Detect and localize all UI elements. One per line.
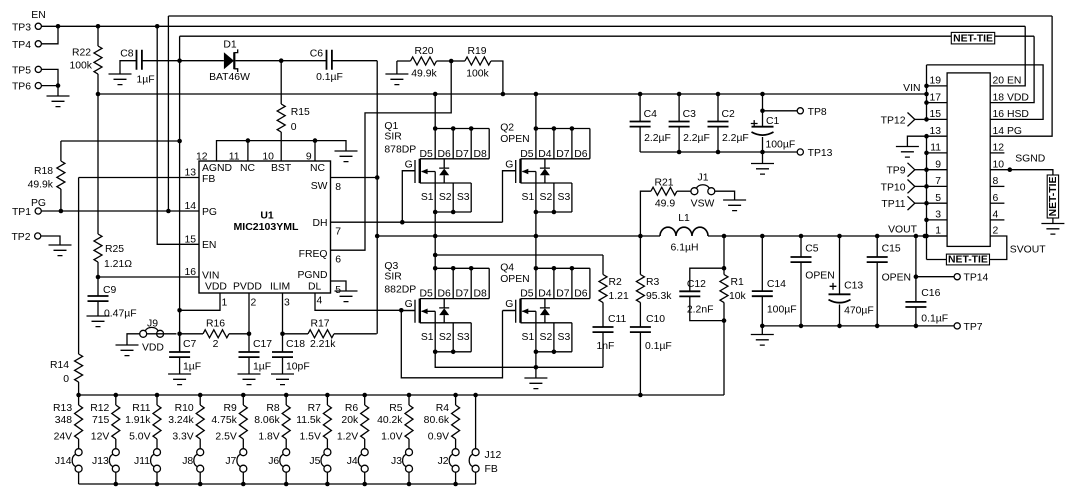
svg-text:C12: C12 xyxy=(687,279,706,290)
svg-text:SW: SW xyxy=(311,181,328,192)
svg-text:24V: 24V xyxy=(54,432,73,443)
svg-text:1.0V: 1.0V xyxy=(381,432,402,443)
svg-text:C8: C8 xyxy=(120,49,134,60)
wire VDD pin 1 xyxy=(180,293,220,310)
test point TP7 xyxy=(954,323,960,329)
node FB rail junctions xyxy=(76,393,81,398)
svg-text:EN: EN xyxy=(202,240,216,251)
svg-text:TP8: TP8 xyxy=(808,107,827,118)
svg-text:R15: R15 xyxy=(291,107,310,118)
test point TP13 xyxy=(797,149,803,155)
svg-text:6.1µH: 6.1µH xyxy=(671,243,699,254)
svg-text:1µF: 1µF xyxy=(137,75,155,86)
svg-text:NC: NC xyxy=(310,163,326,174)
svg-text:12: 12 xyxy=(196,152,208,163)
wire to TP8 xyxy=(763,110,798,112)
wire Q3 gate lead xyxy=(401,310,415,312)
svg-text:1.2V: 1.2V xyxy=(337,432,358,443)
wire FB rail xyxy=(79,394,724,396)
svg-text:FB: FB xyxy=(485,464,498,475)
svg-text:G: G xyxy=(405,299,413,310)
svg-text:VIN: VIN xyxy=(903,83,920,94)
resistor R6 20k (1.2V) xyxy=(362,393,367,398)
test point TP4 xyxy=(35,41,41,47)
capacitor C17 1uF xyxy=(248,334,250,352)
svg-text:J4: J4 xyxy=(347,456,358,467)
svg-text:R16: R16 xyxy=(206,319,225,330)
svg-text:C1: C1 xyxy=(766,116,780,127)
svg-text:R13: R13 xyxy=(53,403,72,414)
wire pin 4 stub xyxy=(990,219,1004,221)
capacitor C9 0.47uF xyxy=(97,277,99,296)
svg-text:J6: J6 xyxy=(268,456,279,467)
node VDD/PG bus junctions xyxy=(166,209,171,214)
jumper J8 xyxy=(194,449,204,473)
ground SGND xyxy=(1041,224,1064,235)
test point TP9 xyxy=(908,163,915,177)
svg-text:1: 1 xyxy=(935,226,941,237)
wire PVDD pin 2 xyxy=(248,293,250,334)
svg-text:6: 6 xyxy=(335,255,341,266)
svg-text:8: 8 xyxy=(993,176,999,187)
svg-text:OPEN: OPEN xyxy=(500,274,529,285)
node VIN pin junction xyxy=(96,275,101,280)
wire to U1 VIN pin 16 xyxy=(98,276,199,278)
svg-text:4: 4 xyxy=(993,210,999,221)
svg-text:D5: D5 xyxy=(420,149,434,160)
svg-text:C14: C14 xyxy=(767,279,786,290)
svg-text:D8: D8 xyxy=(474,149,488,160)
wire DL pin 4 xyxy=(315,293,401,310)
node EN junctions xyxy=(56,24,61,29)
resistor R14 0 xyxy=(75,354,83,382)
jumper J11 xyxy=(151,449,161,473)
capacitor C6 0.1uF xyxy=(327,50,332,70)
svg-text:D8: D8 xyxy=(474,289,488,300)
svg-text:20k: 20k xyxy=(341,415,359,426)
svg-text:R25: R25 xyxy=(105,244,124,255)
svg-text:2: 2 xyxy=(213,339,219,350)
svg-text:1.21Ω: 1.21Ω xyxy=(104,259,132,270)
inductor L1 6.1uH xyxy=(660,227,708,236)
connector left pin stubs xyxy=(927,85,948,87)
svg-text:1: 1 xyxy=(222,298,228,309)
capacitor C4 2.2uF xyxy=(639,94,641,122)
svg-text:FB: FB xyxy=(202,174,215,185)
jumper J7 xyxy=(237,449,247,473)
ground connector pin 13 xyxy=(907,136,926,146)
wire net-tie to ground xyxy=(1052,218,1054,224)
svg-text:S2: S2 xyxy=(439,332,452,343)
svg-text:100µF: 100µF xyxy=(766,140,796,151)
svg-text:TP4: TP4 xyxy=(12,40,31,51)
node TP8 tap xyxy=(760,109,765,114)
svg-text:D7: D7 xyxy=(456,149,470,160)
test point TP10 xyxy=(908,180,915,194)
svg-text:R19: R19 xyxy=(467,46,486,57)
node VOUT line junctions xyxy=(433,234,438,239)
capacitor C8 1uF xyxy=(137,50,142,70)
resistor R22 100k xyxy=(97,26,99,46)
svg-text:1nF: 1nF xyxy=(597,341,615,352)
svg-text:C9: C9 xyxy=(103,285,117,296)
resistor R8 8.06k (1.8V) xyxy=(284,393,289,398)
jumper J6 xyxy=(280,449,290,473)
svg-text:R17: R17 xyxy=(310,319,329,330)
svg-text:TP2: TP2 xyxy=(11,232,30,243)
svg-text:C6: C6 xyxy=(310,49,324,60)
svg-text:TP9: TP9 xyxy=(886,166,905,177)
svg-text:1µF: 1µF xyxy=(253,362,271,373)
wire Q1 source to SW xyxy=(434,212,436,236)
resistor R25 1.21ohm xyxy=(97,94,99,234)
svg-text:J9: J9 xyxy=(147,319,158,330)
wire Q4 drain to SW xyxy=(535,236,537,268)
ground power stage xyxy=(524,378,547,389)
svg-text:C11: C11 xyxy=(608,314,627,325)
svg-text:D5: D5 xyxy=(520,149,534,160)
jumper J5 xyxy=(321,449,331,473)
svg-text:C13: C13 xyxy=(844,281,863,292)
svg-text:2.21k: 2.21k xyxy=(310,339,336,350)
svg-text:R1: R1 xyxy=(731,277,745,288)
svg-text:470µF: 470µF xyxy=(844,306,874,317)
svg-text:C15: C15 xyxy=(882,244,901,255)
ground C17 xyxy=(238,374,261,385)
svg-text:VDD: VDD xyxy=(142,343,164,354)
svg-text:TP1: TP1 xyxy=(12,207,31,218)
node source junction xyxy=(534,365,539,370)
jumper J1 VSW xyxy=(691,185,715,195)
svg-text:715: 715 xyxy=(92,415,110,426)
resistor R15 0 xyxy=(280,61,282,104)
ground C9 xyxy=(87,316,110,327)
capacitor C5 OPEN xyxy=(800,236,802,257)
svg-text:EN: EN xyxy=(31,10,45,21)
svg-text:2.2µF: 2.2µF xyxy=(644,133,671,144)
wire D1 to C6 xyxy=(235,60,326,62)
svg-text:11.5k: 11.5k xyxy=(296,415,321,426)
jumper J2 xyxy=(449,449,459,473)
ground C18 xyxy=(271,374,294,385)
svg-text:J1: J1 xyxy=(698,173,709,184)
svg-text:D1: D1 xyxy=(223,40,237,51)
svg-text:80.6k: 80.6k xyxy=(424,415,450,426)
svg-text:3: 3 xyxy=(284,298,290,309)
wire connector ground bus xyxy=(926,136,928,259)
resistor R10 3.24k (3.3V) xyxy=(198,393,203,398)
test point TP11 xyxy=(908,196,915,210)
wire to TP13 xyxy=(763,151,798,153)
svg-text:0: 0 xyxy=(291,122,297,133)
node R1 top xyxy=(722,266,727,271)
svg-text:5.0V: 5.0V xyxy=(129,432,150,443)
svg-text:4.75k: 4.75k xyxy=(211,415,237,426)
capacitor C15 OPEN xyxy=(876,236,878,257)
capacitor C2 2.2uF xyxy=(717,94,719,122)
test point TP1 xyxy=(35,208,41,214)
node R1 bottom xyxy=(722,318,727,323)
svg-text:10pF: 10pF xyxy=(286,362,310,373)
svg-text:10: 10 xyxy=(262,152,274,163)
capacitor C10 0.1uF xyxy=(630,327,651,332)
resistor R21 49.9 xyxy=(640,191,651,236)
svg-text:J7: J7 xyxy=(225,456,236,467)
svg-text:R10: R10 xyxy=(175,403,194,414)
svg-text:R2: R2 xyxy=(609,277,623,288)
resistor R20 49.9k xyxy=(397,60,411,62)
svg-text:C10: C10 xyxy=(646,314,665,325)
wire pin 8 stub xyxy=(990,185,1004,187)
svg-text:R18: R18 xyxy=(34,166,53,177)
svg-text:2.5V: 2.5V xyxy=(215,432,236,443)
node SGND xyxy=(1008,167,1013,172)
svg-text:J11: J11 xyxy=(134,456,150,467)
wire EN net horizontal xyxy=(41,25,1025,27)
svg-text:14 PG: 14 PG xyxy=(993,126,1022,137)
svg-text:C5: C5 xyxy=(805,244,819,255)
svg-text:DL: DL xyxy=(308,282,322,293)
svg-text:10k: 10k xyxy=(729,291,747,302)
svg-text:S2: S2 xyxy=(439,192,452,203)
ground R20 xyxy=(385,74,408,85)
svg-text:OPEN: OPEN xyxy=(882,273,911,284)
svg-text:15: 15 xyxy=(184,234,196,245)
svg-text:R11: R11 xyxy=(132,403,151,414)
svg-text:12V: 12V xyxy=(91,432,110,443)
svg-text:0.47µF: 0.47µF xyxy=(104,309,137,320)
wire ILIM pin 3 xyxy=(282,293,284,334)
wire VIN rail xyxy=(98,93,927,95)
capacitor C16 0.1uF xyxy=(915,236,917,302)
test point TP2 xyxy=(35,233,41,239)
svg-text:40.2k: 40.2k xyxy=(377,415,403,426)
wire TP6 to ground xyxy=(41,86,58,96)
wire Q1 drain to VIN xyxy=(434,94,436,129)
capacitor C3 2.2uF xyxy=(678,94,680,122)
ground J1 xyxy=(723,200,746,211)
wire input cap ground bus xyxy=(640,151,762,153)
wire Q4 source to ground xyxy=(535,352,537,378)
resistor R3 95.3k xyxy=(639,236,641,275)
wire SW to L1 xyxy=(377,235,660,237)
transistor Q4 OPEN xyxy=(500,262,590,354)
net-tie SVOUT xyxy=(946,254,989,266)
ground C8 xyxy=(109,74,132,85)
svg-text:D6: D6 xyxy=(438,289,452,300)
resistor R7 11.5k (1.5V) xyxy=(325,393,330,398)
capacitor C13 470uF polarized xyxy=(839,236,841,294)
svg-text:49.9k: 49.9k xyxy=(28,180,54,191)
svg-text:S1: S1 xyxy=(522,332,535,343)
svg-text:16 HSD: 16 HSD xyxy=(993,109,1029,120)
test point TP5 xyxy=(35,66,41,72)
net-tie SGND xyxy=(1047,175,1059,218)
resistor R1 10k xyxy=(723,236,725,275)
resistor R2 1.21 xyxy=(435,254,603,256)
wire SW pin 8 xyxy=(331,177,378,179)
svg-text:100k: 100k xyxy=(466,69,489,80)
svg-text:VOUT: VOUT xyxy=(888,225,918,236)
wire TP4 to EN xyxy=(41,26,58,44)
svg-text:VIN: VIN xyxy=(202,271,219,282)
svg-text:0: 0 xyxy=(63,374,69,385)
svg-text:10: 10 xyxy=(993,159,1005,170)
svg-text:D6: D6 xyxy=(574,289,588,300)
node TP14 tap xyxy=(914,274,919,279)
svg-text:882DP: 882DP xyxy=(384,284,416,295)
resistor R9 4.75k (2.5V) xyxy=(241,393,246,398)
svg-text:348: 348 xyxy=(55,415,73,426)
svg-text:100µF: 100µF xyxy=(767,305,797,316)
node FREQ xyxy=(449,59,454,64)
wire SVOUT loop pin 2 xyxy=(990,236,1007,260)
svg-text:R5: R5 xyxy=(389,403,403,414)
svg-text:R8: R8 xyxy=(266,403,280,414)
svg-text:R20: R20 xyxy=(414,46,433,57)
node BST xyxy=(279,58,284,63)
svg-text:D7: D7 xyxy=(456,289,470,300)
wire PGND pin 5 xyxy=(331,281,347,291)
svg-text:SIR: SIR xyxy=(384,271,402,282)
wire R1 to FB rail xyxy=(723,321,725,395)
node VIN rail junctions xyxy=(96,92,101,97)
svg-text:16: 16 xyxy=(184,267,196,278)
svg-text:R22: R22 xyxy=(72,48,91,59)
svg-text:1.21: 1.21 xyxy=(609,291,629,302)
svg-text:19: 19 xyxy=(929,76,941,87)
svg-text:TP7: TP7 xyxy=(964,322,983,333)
svg-text:PGND: PGND xyxy=(297,270,327,281)
node DH gate Q1 xyxy=(400,220,405,225)
svg-text:D6: D6 xyxy=(438,149,452,160)
svg-text:D7: D7 xyxy=(556,149,570,160)
svg-text:6: 6 xyxy=(993,193,999,204)
wire SGND pin 10 xyxy=(990,170,1053,175)
svg-text:11: 11 xyxy=(229,152,240,163)
svg-text:D6: D6 xyxy=(574,149,588,160)
svg-text:8.06k: 8.06k xyxy=(254,415,280,426)
test point TP3 xyxy=(35,23,41,29)
svg-text:TP6: TP6 xyxy=(12,82,31,93)
resistor R5 40.2k (1.0V) xyxy=(407,393,412,398)
wire Q2 gate to DH xyxy=(503,171,516,223)
svg-text:0.9V: 0.9V xyxy=(428,432,449,443)
svg-text:SIR: SIR xyxy=(384,132,402,143)
svg-text:L1: L1 xyxy=(678,213,690,224)
svg-text:D5: D5 xyxy=(520,289,534,300)
svg-text:R21: R21 xyxy=(654,178,673,189)
wire pin 6 stub xyxy=(990,202,1004,204)
svg-text:FREQ: FREQ xyxy=(299,249,328,260)
svg-text:5: 5 xyxy=(935,193,941,204)
svg-text:MIC2103YML: MIC2103YML xyxy=(234,222,300,233)
resistor R13 348 (24V) xyxy=(78,395,80,405)
svg-text:95.3k: 95.3k xyxy=(646,291,672,302)
svg-text:C3: C3 xyxy=(683,109,697,120)
svg-text:8: 8 xyxy=(335,182,341,193)
wire PG pin 14 xyxy=(41,210,199,212)
wire PG to pin 14 xyxy=(990,16,1052,136)
wire EN to pin 20 xyxy=(990,26,1025,86)
wire to TP7 xyxy=(916,325,954,327)
svg-text:J13: J13 xyxy=(92,456,109,467)
svg-text:PG: PG xyxy=(202,207,217,218)
connector J10 box xyxy=(947,73,990,247)
svg-text:TP11: TP11 xyxy=(881,199,905,210)
resistor R19 100k xyxy=(451,60,465,62)
svg-text:1.8V: 1.8V xyxy=(258,432,279,443)
wire VDD top wrap xyxy=(180,35,1035,37)
svg-text:15: 15 xyxy=(929,109,941,120)
svg-text:C2: C2 xyxy=(722,109,736,120)
wire FB pin 13 xyxy=(79,177,199,179)
jumper J12 FB xyxy=(473,393,478,398)
svg-text:13: 13 xyxy=(929,126,941,137)
svg-text:3.24k: 3.24k xyxy=(168,415,194,426)
wire TP2 to ground xyxy=(41,236,60,245)
svg-text:S3: S3 xyxy=(457,332,470,343)
transistor Q2 OPEN xyxy=(500,123,590,215)
node ILIM xyxy=(280,332,285,337)
node DL gate Q3 xyxy=(399,308,404,313)
ground AGND xyxy=(335,151,358,162)
resistor R4 80.6k (0.9V) xyxy=(453,393,458,398)
svg-text:D7: D7 xyxy=(556,289,570,300)
ground TP2 xyxy=(49,245,72,256)
svg-text:7: 7 xyxy=(935,176,941,187)
resistor R16 2 xyxy=(180,333,203,335)
svg-text:NC: NC xyxy=(240,163,256,174)
svg-text:R6: R6 xyxy=(345,403,359,414)
jumper J9 VDD xyxy=(140,327,164,337)
wire FB riser xyxy=(78,178,80,355)
svg-text:878DP: 878DP xyxy=(384,145,416,156)
wire pin 12 stub xyxy=(990,152,1004,154)
svg-text:12: 12 xyxy=(993,143,1005,154)
svg-text:TP12: TP12 xyxy=(881,115,906,126)
svg-text:0.1µF: 0.1µF xyxy=(921,314,948,325)
svg-text:S1: S1 xyxy=(421,332,434,343)
svg-text:D4: D4 xyxy=(538,149,552,160)
wire Q2 drain to VIN xyxy=(535,94,537,129)
svg-text:C16: C16 xyxy=(921,288,940,299)
svg-text:100k: 100k xyxy=(69,61,92,72)
svg-text:TP5: TP5 xyxy=(12,65,31,76)
wire Q2 source to SW xyxy=(535,212,537,236)
resistor R17 2.21k xyxy=(283,333,309,335)
svg-text:S2: S2 xyxy=(540,332,553,343)
wire PG top wrap xyxy=(168,15,1052,17)
op-amp U1 MIC2103YML controller xyxy=(199,161,331,293)
jumper J3 xyxy=(403,449,413,473)
svg-text:C18: C18 xyxy=(286,339,305,350)
node PVDD xyxy=(247,332,252,337)
svg-text:VDD: VDD xyxy=(205,282,227,293)
wire VDD to pin 18 xyxy=(990,36,1034,102)
svg-text:R7: R7 xyxy=(308,403,322,414)
svg-text:DH: DH xyxy=(312,218,327,229)
svg-text:J2: J2 xyxy=(438,456,449,467)
svg-text:S2: S2 xyxy=(540,192,553,203)
wire EN bus to U1 pin 15 xyxy=(157,26,199,244)
svg-text:R14: R14 xyxy=(50,360,69,371)
svg-text:1µF: 1µF xyxy=(183,362,201,373)
net-tie VDD wrap xyxy=(951,32,994,44)
svg-text:R9: R9 xyxy=(224,403,238,414)
svg-text:NET-TIE: NET-TIE xyxy=(1048,177,1059,217)
svg-text:S3: S3 xyxy=(558,332,571,343)
